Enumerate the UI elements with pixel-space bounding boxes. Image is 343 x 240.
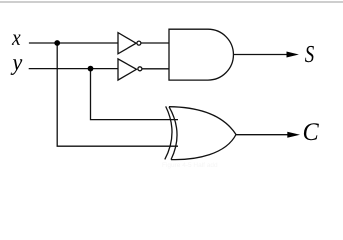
svg-text:Figure 4-5 Half add: Figure 4-5 Half add [162,162,218,169]
